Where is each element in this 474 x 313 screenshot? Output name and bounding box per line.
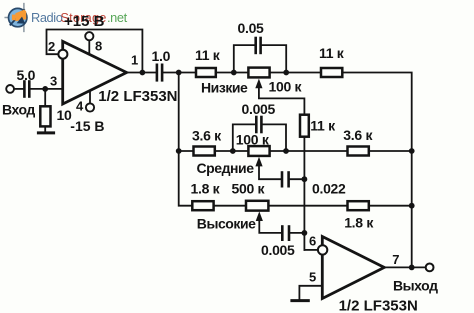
wire resistor to ground	[44, 126, 46, 131]
input terminal	[6, 85, 14, 93]
wire to right bus	[369, 150, 412, 152]
node summing high	[302, 230, 308, 236]
node right bus mid	[409, 148, 415, 154]
svg-text:5.0: 5.0	[17, 67, 36, 83]
svg-text:Низкие: Низкие	[201, 80, 248, 96]
resistor 3.6k mid right	[348, 147, 369, 156]
resistor 11k bass right	[321, 68, 342, 77]
wiper arrow high	[256, 211, 263, 221]
capacitor 5.0	[23, 82, 26, 97]
svg-text:0.005: 0.005	[261, 242, 295, 258]
wire summing bus	[303, 137, 305, 250]
svg-text:100 к: 100 к	[269, 79, 303, 95]
svg-text:10: 10	[57, 107, 72, 123]
node output	[409, 265, 415, 271]
capacitor 1.0	[156, 65, 159, 81]
pin 8 power terminal	[88, 40, 90, 54]
ground op2	[292, 299, 308, 302]
svg-text:0.05: 0.05	[238, 20, 265, 36]
wire	[216, 72, 249, 74]
svg-text:3: 3	[50, 74, 57, 89]
capacitor 0.005 mid	[255, 117, 258, 132]
wire pot to resistor high	[268, 205, 347, 207]
svg-text:11 к: 11 к	[195, 47, 221, 63]
pin 6 input circle	[318, 245, 327, 254]
output terminal	[426, 264, 434, 272]
svg-text:5: 5	[309, 270, 316, 285]
svg-text:Выход: Выход	[393, 278, 438, 294]
capacitor 0.022	[281, 173, 284, 187]
svg-text:Средние: Средние	[197, 160, 255, 176]
op-amp U2 1/2 LF353N	[322, 237, 384, 299]
node mid bracket left	[230, 148, 236, 154]
svg-text:4: 4	[76, 99, 84, 114]
capacitor 0.005 high	[281, 227, 284, 240]
logo RadioStorage.net	[5, 4, 127, 32]
svg-text:11 к: 11 к	[310, 117, 336, 133]
svg-text:Высокие: Высокие	[197, 216, 256, 232]
svg-text:11 к: 11 к	[319, 45, 345, 61]
resistor 11k vertical summing	[300, 115, 309, 137]
svg-text:1/2 LF353N: 1/2 LF353N	[98, 88, 177, 105]
node bass right bracket	[283, 70, 289, 76]
node right bus high	[409, 203, 415, 209]
pin 4 power terminal	[89, 91, 91, 104]
wire to right bus corner	[342, 73, 411, 268]
svg-text:6: 6	[309, 234, 316, 249]
node summing mid	[302, 176, 308, 182]
svg-text:.net: .net	[107, 10, 128, 25]
svg-text:-15 В: -15 В	[70, 118, 104, 134]
resistor 10	[40, 106, 50, 126]
svg-text:Radio: Radio	[31, 10, 63, 25]
svg-text:1.8 к: 1.8 к	[344, 215, 374, 231]
svg-text:1.0: 1.0	[152, 48, 171, 64]
svg-text:3.6 к: 3.6 к	[343, 127, 373, 143]
wire pin2 feedback loop	[47, 30, 143, 73]
wire to right bus	[369, 205, 412, 207]
potentiometer 500k high	[246, 201, 268, 211]
svg-text:3.6 к: 3.6 к	[192, 128, 222, 144]
resistor 1.8k high left	[192, 201, 213, 210]
node left bus top	[176, 70, 182, 76]
capacitor 0.005 bracket mid	[233, 124, 255, 151]
resistor 11k bass left	[196, 68, 216, 77]
wire pot to resistor	[270, 72, 321, 74]
node bass left bracket	[231, 70, 237, 76]
wire input to cap	[14, 88, 23, 90]
svg-text:0.005: 0.005	[242, 101, 276, 117]
wire node to resistor	[44, 89, 46, 106]
pin 5 wire	[299, 286, 322, 299]
potentiometer 100k mid	[248, 146, 269, 156]
pin 2 input circle	[58, 50, 67, 59]
svg-text:1.8 к: 1.8 к	[191, 181, 221, 197]
node input	[42, 86, 48, 92]
wire cap to bus	[163, 72, 196, 74]
capacitor 0.05	[254, 38, 257, 53]
potentiometer 100k bass	[248, 68, 269, 78]
node mid bracket right	[283, 148, 289, 154]
wire	[215, 150, 249, 152]
wire cap to pin3	[30, 88, 62, 90]
wire	[179, 150, 194, 152]
svg-text:1/2 LF353N: 1/2 LF353N	[339, 298, 418, 313]
wiper arrow mid	[255, 157, 262, 167]
node mid left	[176, 148, 182, 154]
capacitor 0.05 bracket	[234, 45, 255, 72]
svg-text:1: 1	[131, 53, 138, 68]
svg-text:2: 2	[48, 39, 55, 54]
svg-text:500 к: 500 к	[232, 181, 266, 197]
wire pot to resistor mid	[270, 150, 348, 152]
wire op2 output	[384, 266, 425, 268]
wire op1 output	[127, 72, 156, 74]
svg-text:Вход: Вход	[2, 102, 35, 118]
svg-text:100 к: 100 к	[236, 132, 270, 148]
svg-text:0.022: 0.022	[312, 181, 346, 197]
svg-text:8: 8	[95, 39, 102, 54]
svg-text:7: 7	[392, 252, 399, 267]
svg-text:+15 В: +15 В	[64, 13, 105, 30]
left bus wire	[179, 73, 193, 206]
op-amp U1 1/2 LF353N	[63, 41, 127, 104]
resistor 1.8k high right	[348, 201, 369, 210]
node op1 out / feedback	[140, 70, 146, 76]
wire	[214, 205, 246, 207]
resistor 3.6k mid left	[194, 147, 215, 156]
ground	[38, 131, 53, 134]
wiper arrow bass	[255, 79, 262, 89]
